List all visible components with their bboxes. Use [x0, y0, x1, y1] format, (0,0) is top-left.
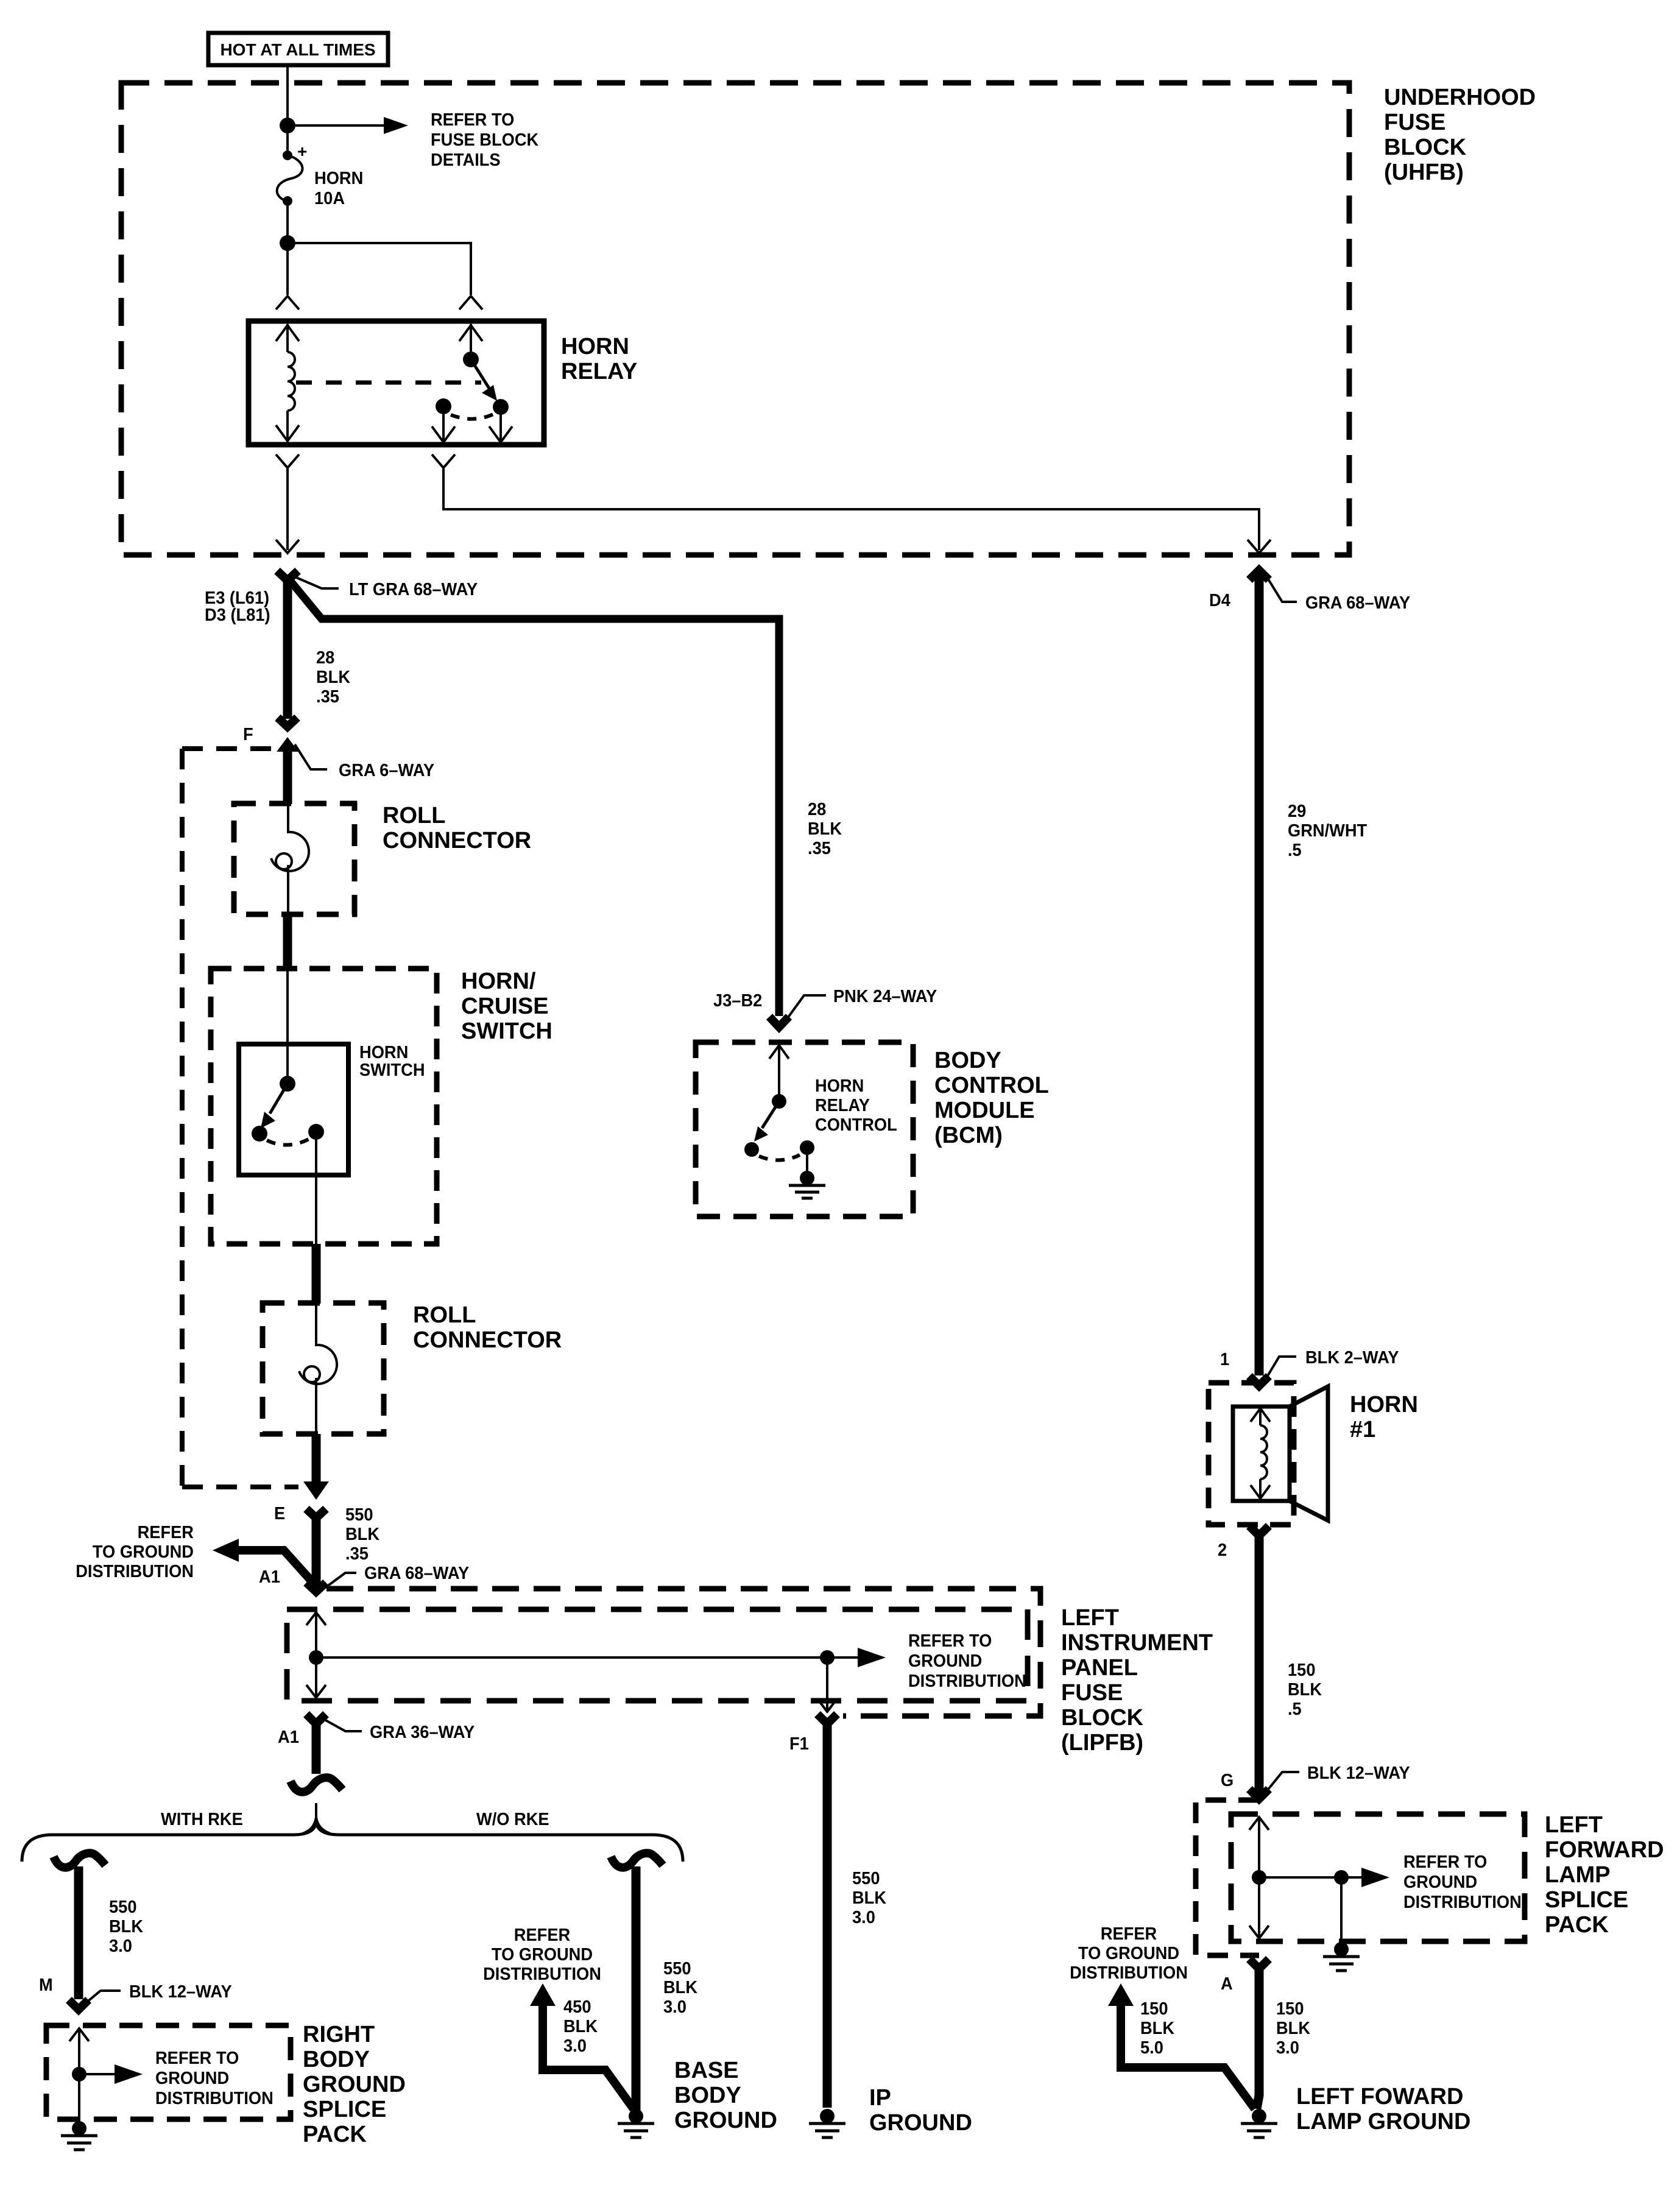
label BLK 2-WAY with leader	[1266, 1348, 1399, 1378]
svg-text:PANEL: PANEL	[1061, 1655, 1138, 1681]
fuse HORN 10A	[277, 142, 308, 206]
left forward lamp ground symbol	[1241, 2109, 1277, 2138]
LIPFB bus wire to ground distribution arrow	[316, 1648, 886, 1667]
svg-text:BLK: BLK	[663, 1978, 697, 1997]
label 550 BLK .35	[345, 1505, 379, 1564]
label 550 BLK 3.0 (F1)	[852, 1869, 886, 1927]
option fork	[303, 1803, 330, 1834]
svg-text:BLK 12–WAY: BLK 12–WAY	[1307, 1763, 1410, 1783]
wire 550 BLK 3.0 WITH RKE branch	[74, 1866, 83, 1999]
label HORN RELAY CONTROL	[815, 1076, 897, 1135]
svg-text:BLOCK: BLOCK	[1061, 1705, 1144, 1731]
svg-text:28: 28	[316, 648, 334, 668]
connector J3-B2 chevron at BCM	[769, 1017, 789, 1027]
svg-text:SWITCH: SWITCH	[359, 1061, 425, 1080]
roll connector 2 clockspring coil	[299, 1303, 337, 1434]
base body ground symbol	[618, 2109, 654, 2138]
label BLK 12-WAY (G) with leader	[1266, 1763, 1410, 1792]
arrow 150 BLK 5.0 to ground distribution	[1108, 1983, 1255, 2109]
svg-text:UNDERHOOD: UNDERHOOD	[1384, 85, 1536, 110]
svg-text:BODY: BODY	[674, 2083, 741, 2108]
wire into horn switch	[286, 970, 289, 1081]
label UNDERHOOD FUSE BLOCK (UHFB)	[1384, 85, 1536, 185]
svg-text:REFER TO: REFER TO	[431, 110, 514, 130]
svg-text:REFER: REFER	[514, 1926, 570, 1945]
svg-text:LAMP: LAMP	[1545, 1862, 1611, 1888]
svg-text:RELAY: RELAY	[815, 1096, 870, 1115]
svg-text:29: 29	[1288, 802, 1306, 821]
label RIGHT BODY GROUND SPLICE PACK	[303, 2022, 406, 2147]
wire 150 BLK 3.0 A to lamp ground	[1257, 1965, 1259, 2109]
connector A1 chevron at LIPFB bottom (GRA 36-WAY)	[306, 1714, 326, 1724]
relay actuation dashed link	[296, 381, 481, 385]
wire E to A1 junction	[312, 1517, 321, 1587]
svg-text:RELAY: RELAY	[561, 359, 637, 384]
LIPFB arrow down to F1	[817, 1657, 837, 1712]
svg-text:HORN: HORN	[359, 1043, 408, 1062]
svg-text:1: 1	[1220, 1350, 1229, 1369]
svg-text:BLK: BLK	[1288, 1680, 1322, 1700]
RBGSP node	[72, 2067, 86, 2081]
left instrument panel fuse block inner dashed box	[287, 1609, 1028, 1701]
svg-text:FUSE BLOCK: FUSE BLOCK	[431, 130, 538, 150]
label E3 (L61) D3 (L81)	[205, 588, 270, 625]
connector M chevron	[69, 2000, 88, 2010]
connector chevron below relay switch	[432, 454, 455, 468]
connector break E chevron	[306, 1509, 326, 1518]
BCM horn relay control switch	[744, 1045, 814, 1160]
svg-text:BODY: BODY	[303, 2047, 370, 2072]
svg-text:BLK 2–WAY: BLK 2–WAY	[1305, 1348, 1399, 1368]
connector A chevron	[1249, 1959, 1269, 1969]
wire 28 BLK .35 branch to BCM	[288, 577, 779, 1016]
svg-text:5.0: 5.0	[1140, 2038, 1163, 2058]
RBGSP ground	[61, 2121, 97, 2150]
svg-text:GRA 68–WAY: GRA 68–WAY	[364, 1564, 469, 1583]
svg-text:RIGHT: RIGHT	[303, 2022, 375, 2047]
svg-text:3.0: 3.0	[109, 1936, 132, 1956]
svg-text:DISTRIBUTION: DISTRIBUTION	[908, 1672, 1026, 1691]
label 150 BLK .5	[1288, 1661, 1322, 1719]
LFLSP bus node	[1252, 1870, 1266, 1885]
label REFER TO GROUND DISTRIBUTION (lamp)	[1070, 1924, 1188, 1983]
svg-text:GROUND: GROUND	[1403, 1873, 1477, 1892]
harness curl WITH RKE branch	[54, 1853, 105, 1868]
arrow to fuse block details	[288, 117, 408, 134]
svg-text:550: 550	[663, 1959, 691, 1979]
LIPFB bus node at F1	[820, 1650, 835, 1665]
svg-text:.35: .35	[345, 1544, 369, 1564]
connector chevron horn pin 1	[1249, 1376, 1269, 1386]
svg-text:.35: .35	[316, 687, 339, 707]
svg-text:D3 (L81): D3 (L81)	[205, 605, 270, 625]
relay box HORN RELAY	[249, 321, 544, 445]
svg-text:PACK: PACK	[303, 2122, 367, 2147]
RBGSP arrow to ground distribution	[79, 2064, 143, 2084]
svg-text:CONTROL: CONTROL	[934, 1073, 1049, 1098]
right body ground splice pack dashed box	[46, 2025, 291, 2119]
connector break F chevron upper	[278, 718, 297, 727]
roll connector 1 dashed box	[234, 803, 355, 914]
label 150 BLK 3.0	[1276, 1999, 1310, 2058]
horn switch contacts	[252, 1076, 324, 1145]
svg-text:REFER: REFER	[138, 1523, 194, 1542]
svg-text:GRA 68–WAY: GRA 68–WAY	[1305, 593, 1410, 613]
wire 28 BLK .35 vertical to F connector	[283, 577, 292, 719]
wire horn switch output	[315, 1139, 317, 1244]
label HORN RELAY	[561, 334, 637, 384]
svg-text:W/O RKE: W/O RKE	[476, 1810, 549, 1829]
svg-text:LAMP GROUND: LAMP GROUND	[1296, 2109, 1470, 2134]
svg-text:BLK: BLK	[316, 668, 350, 687]
svg-text:GRN/WHT: GRN/WHT	[1288, 821, 1367, 841]
svg-text:550: 550	[109, 1898, 137, 1917]
svg-text:LEFT: LEFT	[1545, 1812, 1603, 1838]
connector D4 chevron below UHFB	[1249, 570, 1269, 580]
svg-text:BLK: BLK	[109, 1917, 143, 1936]
label LEFT FORWARD LAMP SPLICE PACK	[1545, 1812, 1664, 1938]
underhood fuse block UHFB dashed boundary	[121, 83, 1349, 555]
svg-text:LT GRA 68–WAY: LT GRA 68–WAY	[349, 580, 478, 599]
svg-text:M: M	[39, 1975, 53, 1995]
wire roll connector 2 to E with arrow	[303, 1434, 329, 1500]
svg-text:GROUND: GROUND	[155, 2069, 229, 2088]
label IP GROUND	[869, 2085, 972, 2136]
LFLSP wire to ground distribution arrow	[1259, 1868, 1389, 1887]
svg-text:INSTRUMENT: INSTRUMENT	[1061, 1630, 1213, 1656]
horn/cruise switch dashed box	[211, 969, 437, 1244]
label LEFT FOWARD LAMP GROUND	[1296, 2084, 1470, 2134]
label GRA 36-WAY with leader	[323, 1719, 475, 1742]
svg-text:450: 450	[563, 1997, 591, 2017]
svg-text:ROLL: ROLL	[413, 1302, 476, 1328]
svg-text:TO GROUND: TO GROUND	[1078, 1944, 1179, 1963]
svg-text:GRA 36–WAY: GRA 36–WAY	[370, 1723, 475, 1742]
wire 29 GRN/WHT .5 to horn	[1255, 576, 1264, 1375]
svg-text:.5: .5	[1288, 841, 1302, 860]
svg-text:(UHFB): (UHFB)	[1384, 160, 1464, 185]
connector E3/D3 at UHFB exit (LT GRA 68-WAY)	[277, 571, 339, 588]
svg-text:PNK 24–WAY: PNK 24–WAY	[833, 987, 937, 1006]
harness curl W/O RKE branch	[611, 1853, 663, 1868]
svg-text:BODY: BODY	[934, 1048, 1001, 1073]
svg-text:SWITCH: SWITCH	[461, 1019, 552, 1044]
svg-text:REFER: REFER	[1101, 1924, 1157, 1944]
svg-text:3.0: 3.0	[852, 1908, 875, 1927]
label 28 BLK .35 (BCM wire)	[808, 800, 842, 858]
power label HOT AT ALL TIMES	[208, 33, 388, 65]
horn #1 body	[1233, 1386, 1328, 1520]
roll connector 2 dashed box	[263, 1303, 384, 1434]
label 450 BLK 3.0	[563, 1997, 598, 2056]
option brace	[22, 1820, 683, 1862]
svg-text:HOT AT ALL TIMES: HOT AT ALL TIMES	[220, 40, 375, 59]
svg-text:550: 550	[345, 1505, 373, 1525]
relay switch	[436, 324, 509, 419]
label HORN #1	[1350, 1392, 1418, 1442]
label PNK 24-WAY with leader	[785, 987, 937, 1022]
wire 550 BLK 3.0 F1 to IP ground	[823, 1720, 832, 2108]
label REFER TO GROUND DISTRIBUTION (LIPFB)	[908, 1631, 1026, 1691]
steering column outer dashed boundary	[182, 749, 298, 1487]
svg-text:GROUND: GROUND	[674, 2108, 777, 2133]
svg-text:FORWARD: FORWARD	[1545, 1837, 1664, 1863]
connector chevron below relay coil	[276, 454, 299, 468]
wire A1 to option splice	[312, 1720, 321, 1774]
horn switch box	[239, 1044, 348, 1175]
IP ground symbol	[809, 2109, 845, 2138]
label BASE BODY GROUND	[674, 2058, 777, 2133]
label 150 BLK 5.0	[1140, 1999, 1174, 2058]
wire horn/cruise switch to roll connector 2	[312, 1244, 321, 1304]
svg-text:J3–B2: J3–B2	[713, 991, 762, 1011]
svg-text:(BCM): (BCM)	[934, 1123, 1003, 1148]
svg-text:REFER TO: REFER TO	[908, 1631, 992, 1651]
wire 550 BLK 3.0 W/O RKE branch	[632, 1866, 641, 2111]
horn #1 coil	[1251, 1408, 1270, 1499]
label ROLL CONNECTOR (lower)	[413, 1302, 562, 1353]
label GRA 68-WAY (D4) with leader	[1266, 576, 1410, 613]
wire roll connector 1 to horn/cruise switch	[283, 914, 292, 970]
svg-text:28: 28	[808, 800, 826, 819]
svg-text:CONTROL: CONTROL	[815, 1115, 897, 1135]
relay coil	[276, 324, 299, 442]
svg-text:#1: #1	[1350, 1417, 1375, 1442]
wire from HOT AT ALL TIMES down into fuse block	[286, 65, 289, 154]
svg-text:HORN: HORN	[1350, 1392, 1418, 1417]
LIPFB internal bus double arrow	[306, 1612, 326, 1698]
connector A1 chevron at LIPFB top	[306, 1583, 326, 1592]
connector chevron horn pin 2	[1249, 1526, 1269, 1536]
relay switch output pins	[432, 414, 512, 442]
label 550 BLK 3.0 (right)	[663, 1959, 697, 2017]
svg-text:GROUND: GROUND	[303, 2072, 406, 2097]
svg-text:BLK: BLK	[345, 1525, 379, 1544]
LIPFB bus node	[309, 1650, 323, 1665]
svg-text:BASE: BASE	[674, 2058, 739, 2083]
connector chevron into relay switch pin	[459, 296, 482, 309]
svg-text:REFER TO: REFER TO	[1403, 1852, 1487, 1872]
wire relay switch to D4 exit	[443, 468, 1271, 553]
LFLSP internal bus double arrow	[1249, 1816, 1269, 1939]
wire relay coil to E3 connector	[276, 468, 299, 553]
svg-text:BLK: BLK	[1140, 2019, 1174, 2038]
svg-text:HORN: HORN	[561, 334, 629, 359]
label 28 BLK .35 (left)	[316, 648, 350, 707]
left forward lamp splice pack outer dashed outline	[1196, 1800, 1259, 1955]
wire fuse to relay coil pin	[286, 201, 289, 295]
left forward lamp splice pack inner dashed box	[1231, 1814, 1525, 1941]
svg-text:150: 150	[1288, 1661, 1316, 1680]
svg-text:BLK 12–WAY: BLK 12–WAY	[129, 1982, 232, 2002]
label HORN/ CRUISE SWITCH	[461, 969, 552, 1044]
svg-text:10A: 10A	[314, 189, 345, 208]
svg-text:3.0: 3.0	[563, 2036, 587, 2056]
svg-text:CRUISE: CRUISE	[461, 994, 549, 1019]
svg-text:DISTRIBUTION: DISTRIBUTION	[483, 1965, 601, 1984]
svg-text:LEFT FOWARD: LEFT FOWARD	[1296, 2084, 1463, 2109]
connector F arrow lower (GRA 6-WAY)	[277, 737, 327, 804]
svg-text:BLOCK: BLOCK	[1384, 135, 1467, 160]
svg-text:DETAILS: DETAILS	[431, 150, 501, 170]
harness curl at option splice	[291, 1778, 342, 1792]
label REFER TO GROUND DISTRIBUTION (RBGSP)	[155, 2049, 274, 2108]
svg-text:CONNECTOR: CONNECTOR	[383, 828, 531, 853]
wire 150 BLK .5 horn to G	[1255, 1533, 1264, 1793]
svg-text:+: +	[297, 142, 307, 161]
label BLK 12-WAY (M) with leader	[86, 1982, 232, 2003]
svg-text:TO GROUND: TO GROUND	[492, 1945, 593, 1965]
svg-text:FUSE: FUSE	[1061, 1680, 1123, 1706]
svg-text:G: G	[1221, 1771, 1234, 1790]
svg-text:PACK: PACK	[1545, 1912, 1609, 1938]
svg-text:DISTRIBUTION: DISTRIBUTION	[1070, 1963, 1188, 1983]
svg-text:GROUND: GROUND	[869, 2110, 972, 2136]
svg-text:(LIPFB): (LIPFB)	[1061, 1730, 1143, 1756]
svg-text:BLK: BLK	[563, 2017, 598, 2036]
label 550 BLK 3.0 (left)	[109, 1898, 143, 1956]
svg-text:DISTRIBUTION: DISTRIBUTION	[1403, 1893, 1522, 1912]
label REFER TO GROUND DISTRIBUTION (W/O RKE)	[483, 1926, 601, 1984]
svg-text:REFER TO: REFER TO	[155, 2049, 239, 2068]
svg-text:F1: F1	[789, 1734, 809, 1754]
svg-text:MODULE: MODULE	[934, 1098, 1035, 1123]
svg-text:HORN: HORN	[314, 169, 363, 188]
label BODY CONTROL MODULE (BCM)	[934, 1048, 1049, 1148]
wire branch to ground distribution with arrow	[213, 1539, 316, 1586]
svg-text:150: 150	[1140, 1999, 1168, 2019]
svg-text:3.0: 3.0	[1276, 2038, 1299, 2058]
horn #1 dashed box	[1209, 1383, 1294, 1525]
svg-text:150: 150	[1276, 1999, 1304, 2019]
svg-text:.5: .5	[1288, 1700, 1302, 1719]
RBGSP internal arrow up	[69, 2028, 89, 2124]
svg-text:GRA 6–WAY: GRA 6–WAY	[339, 761, 434, 780]
connector chevron G	[1249, 1789, 1269, 1799]
svg-text:2: 2	[1218, 1541, 1227, 1560]
svg-text:LEFT: LEFT	[1061, 1605, 1119, 1631]
svg-text:WITH RKE: WITH RKE	[161, 1810, 243, 1829]
svg-text:FUSE: FUSE	[1384, 110, 1445, 135]
svg-text:GROUND: GROUND	[908, 1651, 982, 1671]
node junction above fuse	[280, 118, 295, 133]
svg-text:CONNECTOR: CONNECTOR	[413, 1327, 562, 1353]
svg-text:DISTRIBUTION: DISTRIBUTION	[155, 2089, 274, 2108]
left instrument panel fuse block outer dashed outline	[326, 1589, 1040, 1716]
svg-text:BLK: BLK	[852, 1888, 886, 1908]
node junction below fuse	[280, 235, 295, 251]
svg-text:.35: .35	[808, 839, 831, 858]
svg-text:A1: A1	[259, 1567, 280, 1587]
svg-text:BLK: BLK	[808, 819, 842, 839]
svg-text:SPLICE: SPLICE	[1545, 1887, 1628, 1913]
svg-text:A1: A1	[278, 1728, 299, 1747]
label 29 GRN/WHT .5	[1288, 802, 1367, 860]
connector F1 chevron	[817, 1714, 837, 1724]
svg-text:D4: D4	[1209, 591, 1230, 610]
label REFER TO FUSE BLOCK DETAILS	[431, 110, 538, 170]
roll connector 1 clockspring coil	[271, 803, 309, 914]
connector chevron into relay coil pin	[276, 296, 299, 309]
label HORN 10A	[314, 169, 363, 208]
label LEFT INSTRUMENT PANEL FUSE BLOCK (LIPFB)	[1061, 1605, 1213, 1756]
svg-text:SPLICE: SPLICE	[303, 2097, 386, 2122]
svg-text:HORN/: HORN/	[461, 969, 536, 994]
arrow 450 BLK 3.0 to ground distribution	[530, 1983, 634, 2109]
label REFER TO GROUND DISTRIBUTION (left of E)	[76, 1523, 194, 1581]
label REFER TO GROUND DISTRIBUTION (LFLSP)	[1403, 1852, 1522, 1912]
svg-text:3.0: 3.0	[663, 1997, 686, 2017]
svg-text:A: A	[1221, 1974, 1233, 1994]
svg-text:550: 550	[852, 1869, 880, 1888]
label GRA 68-WAY with leader	[325, 1564, 469, 1588]
label HORN SWITCH	[359, 1043, 425, 1080]
LFLSP internal ground	[1323, 1877, 1360, 1971]
LFLSP node to internal ground	[1334, 1870, 1349, 1885]
BCM internal ground	[789, 1155, 825, 1198]
svg-text:E: E	[274, 1504, 285, 1523]
svg-text:IP: IP	[869, 2085, 891, 2111]
svg-text:DISTRIBUTION: DISTRIBUTION	[76, 1562, 194, 1581]
svg-text:HORN: HORN	[815, 1076, 864, 1096]
wire branch to relay switch pin	[288, 243, 471, 295]
body control module BCM dashed box	[696, 1042, 913, 1216]
label ROLL CONNECTOR (upper)	[383, 803, 531, 853]
svg-text:ROLL: ROLL	[383, 803, 445, 828]
svg-text:BLK: BLK	[1276, 2019, 1310, 2038]
svg-text:F: F	[243, 725, 253, 744]
svg-text:TO GROUND: TO GROUND	[93, 1542, 194, 1562]
